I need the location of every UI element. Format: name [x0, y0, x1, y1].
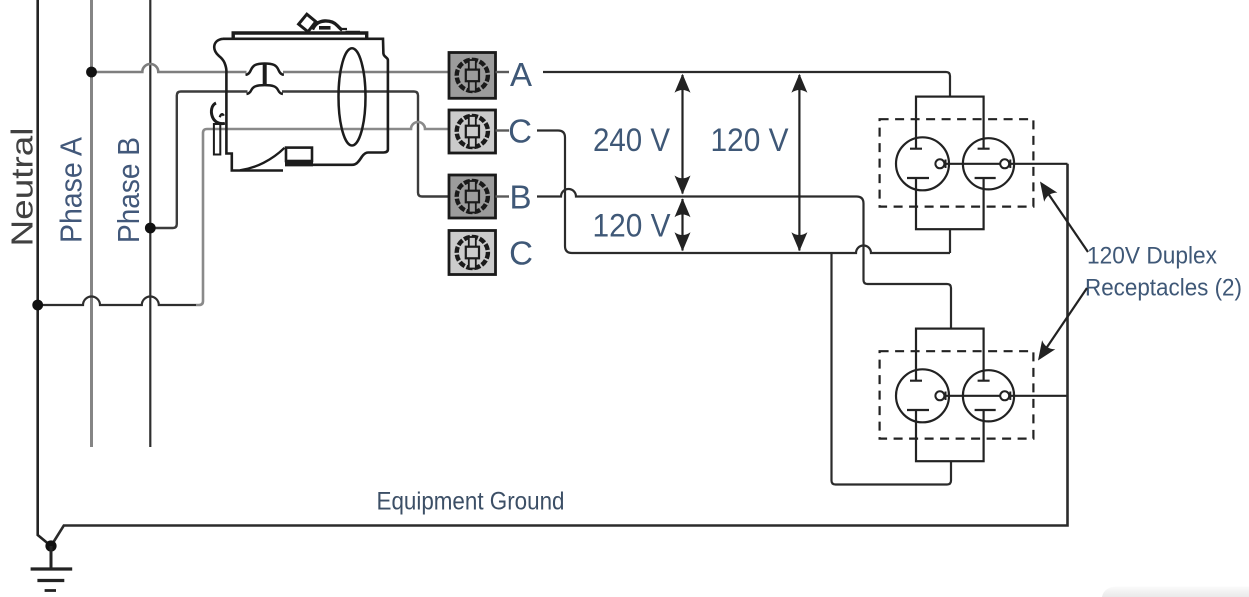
breaker handle tick [319, 26, 331, 30]
breaker contact thick segment [285, 162, 313, 166]
terminal B square [449, 175, 496, 218]
outlet circle right [963, 370, 1014, 421]
breaker jaw curve [240, 148, 285, 171]
phase B vertical line [149, 0, 151, 447]
callout arrow lower [1031, 288, 1087, 365]
slots left outlet [907, 139, 929, 189]
svg-text:120 V: 120 V [593, 208, 672, 244]
neutral bus vertical line [38, 0, 51, 546]
wire: neutral branch with hops over phase A and phase B [38, 297, 196, 306]
wire: phase B tap up and right to breaker pole 2 [150, 92, 247, 229]
phase A vertical line [90, 0, 93, 447]
wire: A line to upper receptacle [543, 72, 950, 97]
wire: neutral riser to terminal C1 (hop over pole-2 drop) [196, 122, 449, 305]
svg-text:C: C [509, 235, 533, 272]
ground hole left [935, 159, 944, 168]
outlet circle right [963, 138, 1014, 189]
terminal C1 stub [496, 129, 510, 131]
cover dashed box [880, 351, 1034, 438]
svg-text:Phase A: Phase A [54, 137, 89, 243]
wire pole 1 continuation to terminal A [283, 71, 449, 74]
outlet circle left [896, 369, 949, 422]
breaker trip bone top dome [246, 64, 284, 75]
wire: B line right with hop, down, jog to lower receptacle [537, 189, 951, 329]
arrow 120V small [675, 198, 691, 251]
cover dashed box [880, 119, 1034, 206]
breaker body outline [223, 39, 388, 165]
slots left outlet [907, 371, 929, 421]
breaker contact block [286, 148, 312, 161]
ground junction dot [45, 540, 56, 551]
svg-text:Phase B: Phase B [111, 137, 146, 243]
ground link wire [944, 395, 1067, 397]
terminal C1 square [449, 110, 496, 153]
svg-text:A: A [510, 56, 532, 93]
svg-text:240 V: 240 V [593, 122, 671, 158]
terminal B stub [496, 195, 510, 197]
breaker clip slot [214, 124, 220, 155]
breaker coil ellipse [339, 48, 366, 145]
ground hole right [1000, 159, 1009, 168]
arrow 120V long [791, 74, 807, 251]
outlet circle left [896, 137, 949, 190]
svg-text:Equipment Ground: Equipment Ground [377, 488, 565, 516]
wire pole 2 continuation, down at x418, to terminal B [282, 92, 449, 197]
svg-text:120V Duplex: 120V Duplex [1087, 243, 1217, 270]
svg-text:120 V: 120 V [711, 122, 790, 158]
breaker clip hook [211, 103, 224, 124]
slots right outlet [975, 140, 996, 189]
svg-text:Receptacles (2): Receptacles (2) [1085, 275, 1242, 302]
ground hole left [935, 391, 944, 400]
ground link wire [944, 163, 1067, 165]
equipment ground bus [51, 164, 1068, 546]
slots right outlet [975, 372, 996, 421]
wire: neutral drop to lower receptacle bottom [832, 253, 952, 485]
wire: phase A tap to breaker pole 1 (hop over phase B) [92, 64, 247, 72]
arrow 240V [675, 74, 691, 195]
upper receptacle [880, 97, 1068, 230]
junction dot phase B [145, 223, 156, 234]
terminal C2 square [449, 231, 496, 275]
earth ground symbol [31, 546, 73, 591]
svg-text:C: C [508, 113, 532, 150]
wire: upper receptacle bottom to neutral run [949, 229, 951, 253]
strap rectangle [916, 97, 984, 230]
svg-text:Neutral: Neutral [5, 128, 40, 247]
breaker top rail [233, 33, 367, 39]
ground hole right [1000, 391, 1009, 400]
terminal A stub [496, 71, 510, 73]
junction dot phase A [86, 67, 97, 78]
breaker handle diamond [299, 14, 316, 32]
lower receptacle [880, 329, 1068, 462]
breaker trip bone bottom dome [247, 85, 283, 94]
strap rectangle [916, 329, 984, 462]
terminal A square [449, 53, 496, 99]
circuit breaker body [211, 14, 387, 170]
breaker trip bone bar [263, 65, 267, 86]
wire: C1 down to neutral run (with hop over B drop) to upper receptacle bottom [537, 131, 950, 254]
callout arrow upper [1033, 177, 1088, 252]
junction dot neutral [32, 300, 43, 311]
breaker handle arch [313, 21, 343, 30]
breaker rail ticks right of handle [340, 29, 360, 32]
svg-text:B: B [509, 179, 531, 216]
